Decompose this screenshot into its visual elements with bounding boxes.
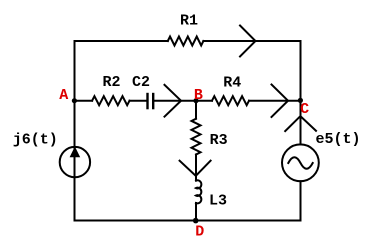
wire B to R3 [195, 101, 197, 119]
wire right vertical lower [300, 181, 302, 220]
arrowhead of J6 source [70, 148, 79, 157]
svg-text:B: B [194, 87, 203, 104]
resistor R2 [92, 96, 129, 105]
svg-text:A: A [59, 87, 68, 104]
node A [72, 98, 77, 103]
wire C2 to B [154, 100, 196, 102]
svg-text:j6(t): j6(t) [13, 132, 58, 149]
sine wave in E5 [288, 157, 312, 169]
svg-text:C2: C2 [132, 74, 150, 91]
wire left vertical [74, 41, 76, 221]
wire top left segment [75, 40, 168, 42]
svg-text:D: D [195, 224, 204, 241]
voltage source E5 circle [282, 144, 319, 181]
svg-text:R2: R2 [102, 74, 120, 91]
current arrow R4 to C [272, 85, 289, 118]
wire right vertical upper [300, 41, 302, 144]
svg-text:C: C [300, 101, 309, 118]
svg-text:R1: R1 [180, 13, 198, 30]
voltage arrow E5 up [285, 116, 316, 131]
node B [193, 98, 198, 103]
resistor R4 [212, 96, 249, 105]
wire R2 to C2 [130, 100, 147, 102]
current arrow on R1 wire [240, 26, 256, 57]
svg-text:e5(t): e5(t) [315, 131, 360, 148]
node D [193, 218, 199, 224]
svg-text:L3: L3 [209, 193, 227, 210]
wire L3 to D [195, 203, 197, 221]
current arrow R3 down [180, 161, 211, 176]
node C [298, 98, 303, 103]
svg-text:R3: R3 [210, 132, 228, 149]
wire bottom [75, 220, 301, 222]
inductor L3 [196, 180, 201, 203]
resistor R3 [192, 119, 201, 155]
svg-text:R4: R4 [223, 74, 241, 91]
wire top right segment [203, 40, 300, 42]
resistor R1 [168, 37, 204, 46]
wire R3 to L3 [195, 155, 197, 181]
current arrow C2 to B [165, 85, 182, 117]
wire A to R2 [75, 100, 93, 102]
wire B to R4 [196, 100, 212, 102]
current source J6 circle [60, 147, 90, 177]
capacitor C2 [148, 94, 154, 108]
wire R4 to C [249, 100, 301, 102]
